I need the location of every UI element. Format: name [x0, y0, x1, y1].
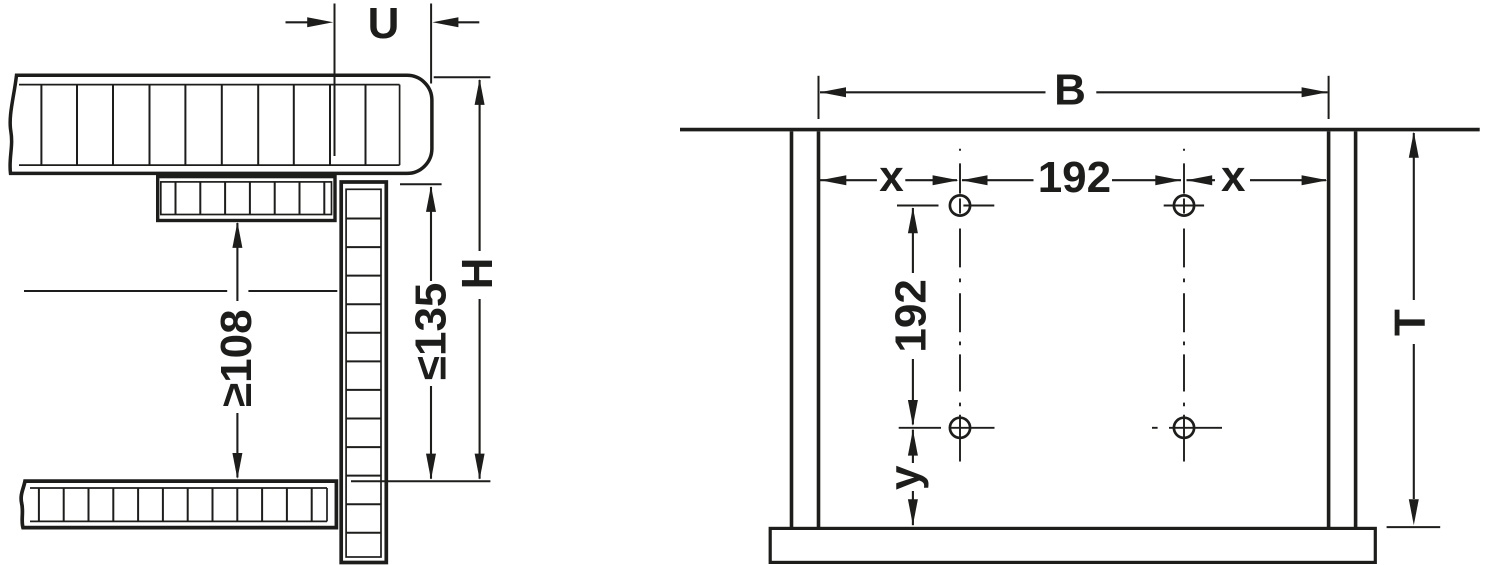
cabinet left side panel lines [792, 131, 819, 527]
cabinet top line (right view) [680, 128, 1480, 132]
svg-text:U: U [368, 0, 400, 48]
dimension 192 vertical line and arrows [908, 207, 918, 426]
hole top-left [950, 195, 970, 215]
dimension U left arrow [286, 17, 334, 27]
svg-text:T: T [1385, 309, 1434, 336]
cabinet plinth (bottom base) [770, 528, 1375, 562]
svg-text:H: H [453, 258, 502, 290]
bottom shelf hatch dividers [39, 488, 312, 521]
fixing rail inner lines [161, 182, 332, 215]
dimension y line and arrows [908, 430, 918, 526]
vertical panel hatch dividers [346, 219, 381, 533]
svg-text:192: 192 [886, 279, 935, 352]
dimension U extension lines [335, 4, 432, 157]
dimension H line and arrows [475, 79, 485, 480]
svg-text:x: x [1221, 152, 1246, 201]
bottom shelf inner lines [30, 488, 327, 521]
hole bottom-right [1174, 418, 1194, 438]
fixing rail hatch dividers [176, 182, 325, 215]
svg-text:≥108: ≥108 [212, 309, 261, 407]
dimension &#8804;135 extension line [400, 183, 442, 185]
dimension B line and arrows [820, 87, 1328, 97]
svg-text:x: x [879, 152, 904, 201]
dimension B extension lines [819, 76, 1329, 119]
vertical panel outline (drawer side, left view) [341, 182, 386, 563]
worktop outline (top panel cross-section, left view) [10, 75, 432, 173]
hole bottom-left cross ticks [899, 427, 995, 429]
svg-text:≤135: ≤135 [407, 283, 456, 381]
hole centerline vertical right [1183, 149, 1185, 462]
hole bottom-left [950, 418, 970, 438]
dimension H extension lines [351, 77, 490, 481]
worktop inner chipboard lines [19, 85, 400, 166]
hole centerline vertical left [959, 149, 961, 462]
bottom shelf outline (left view) [21, 481, 336, 527]
dimension T extension line [1387, 526, 1441, 528]
worktop hatch dividers [41, 85, 365, 166]
svg-text:y: y [881, 465, 930, 490]
vertical panel inner lines [346, 189, 381, 557]
hole top-left cross ticks [897, 205, 994, 207]
hole top-right cross ticks [1164, 205, 1204, 207]
svg-text:B: B [1054, 66, 1086, 115]
fixing rail outline (below worktop) [158, 177, 335, 221]
mid reference line (left view) [24, 290, 337, 292]
dimension U right arrow [432, 17, 479, 27]
dimension T line and arrows [1409, 132, 1419, 526]
dimension &#8804;135 line and arrows [426, 186, 436, 480]
dimension row x / 192 / x lines [820, 179, 1326, 181]
cabinet right side panel lines [1329, 131, 1356, 527]
hole bottom-right cross ticks [1152, 427, 1222, 429]
dimension row arrows [820, 175, 1327, 185]
svg-text:192: 192 [1038, 153, 1111, 202]
dimension &#8805;108 line and arrows [232, 222, 242, 479]
hole top-right [1174, 195, 1194, 215]
